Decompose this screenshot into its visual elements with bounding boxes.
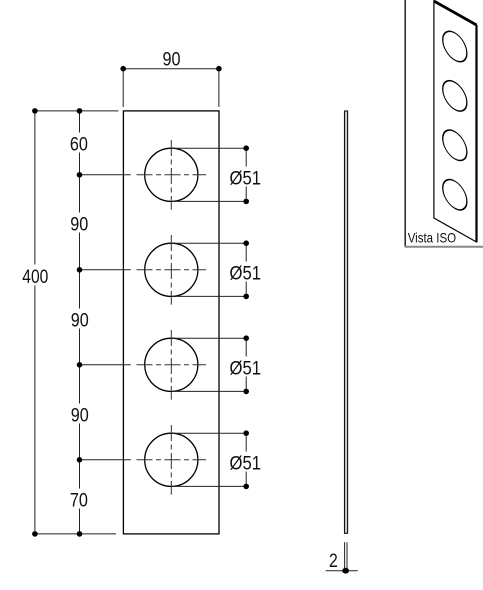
dim text white backings: [25, 133, 89, 509]
dim thickness 2 lines: [326, 542, 358, 571]
hole H1 circle: [145, 148, 198, 201]
hole H2 circle: [145, 243, 198, 296]
dim width 90 dots: [120, 66, 221, 72]
dim Ø51 H3 backing: [230, 357, 261, 377]
svg-text:60: 60: [70, 133, 88, 155]
hole H3 circle: [145, 338, 198, 391]
svg-text:Ø51: Ø51: [230, 452, 262, 474]
dim Ø51 H4 lines: [171, 433, 246, 486]
ISO hole E4: [443, 174, 467, 215]
svg-text:90: 90: [163, 49, 181, 71]
dim Ø51 H2 backing: [230, 262, 261, 282]
svg-text:90: 90: [71, 404, 89, 426]
dim thickness 2 dot: [342, 568, 349, 574]
hole H3 centerlines: [137, 330, 207, 400]
svg-text:400: 400: [22, 266, 48, 288]
plate front view outline: [123, 111, 219, 534]
svg-text:Ø51: Ø51: [230, 167, 262, 189]
hole H4 circle: [145, 433, 198, 486]
ISO plate thick right edge: [475, 25, 477, 242]
svg-text:Ø51: Ø51: [230, 262, 262, 284]
dim chain vertical lines: [35, 111, 131, 534]
dim Ø51 H3 lines: [171, 338, 246, 391]
svg-text:90: 90: [70, 214, 88, 236]
dim Ø51 H3 dots: [243, 335, 249, 394]
ISO plate thick top edge: [434, 1, 477, 25]
svg-text:Ø51: Ø51: [230, 357, 262, 379]
hole H1 centerlines: [137, 140, 207, 210]
dim chain dots: [32, 108, 82, 537]
svg-text:2: 2: [329, 550, 338, 572]
hole H2 centerlines: [137, 235, 207, 305]
ISO inset box border: [405, 0, 483, 247]
dim Ø51 H1 lines: [171, 148, 246, 201]
ISO hole E3: [443, 125, 467, 166]
dim Ø51 H1 dots: [243, 145, 249, 204]
dim Ø51 H1 backing: [230, 167, 261, 187]
dim Ø51 H4 backing: [230, 452, 261, 472]
svg-text:70: 70: [70, 490, 88, 512]
dim Ø51 H4 dots: [243, 430, 249, 489]
dim Ø51 H2 dots: [243, 240, 249, 299]
ISO plate face: [434, 1, 477, 242]
svg-text:90: 90: [71, 310, 89, 332]
hole H4 centerlines: [137, 425, 207, 495]
dim width 90 lines: [123, 69, 219, 107]
dim Ø51 H2 lines: [171, 243, 246, 296]
svg-text:Vista ISO: Vista ISO: [408, 231, 457, 246]
ISO hole E1: [443, 26, 467, 67]
side view thin plate: [345, 111, 348, 533]
ISO hole E2: [443, 76, 467, 117]
